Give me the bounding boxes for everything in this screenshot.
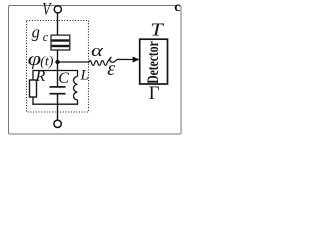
detector box	[140, 39, 168, 84]
dashed box (environment)	[27, 21, 89, 113]
wire L bottom	[77, 100, 79, 105]
wire node to output port	[58, 61, 90, 63]
wire to bottom terminal	[57, 104, 59, 121]
svg-text:Detector: Detector	[145, 41, 162, 84]
svg-text:ε: ε	[107, 58, 115, 80]
svg-text:c: c	[174, 0, 180, 15]
wire R bottom	[32, 97, 34, 105]
svg-text:T: T	[150, 21, 164, 40]
inductor L (coil)	[73, 77, 77, 100]
wire V to junction	[57, 13, 59, 36]
capacitor C	[50, 70, 66, 105]
bottom bus wire	[32, 103, 77, 105]
svg-text:g: g	[32, 23, 40, 42]
svg-text:Γ: Γ	[149, 84, 160, 104]
svg-text:c: c	[43, 30, 49, 44]
svg-text:α: α	[91, 41, 103, 60]
top bus wire R-C-L	[33, 71, 78, 81]
svg-text:C: C	[58, 70, 69, 87]
resistor R (box)	[30, 80, 37, 97]
svg-text:φ: φ	[28, 47, 42, 69]
wire junction to node	[57, 50, 59, 71]
svg-text:L: L	[80, 68, 89, 84]
arrowhead to detector	[133, 57, 140, 63]
panel frame (decorative)	[9, 6, 182, 135]
junction gc (box)	[51, 35, 70, 50]
bottom terminal (circle)	[54, 120, 61, 127]
photon wavy line with curl	[89, 57, 133, 65]
terminal V (top circle)	[54, 6, 61, 13]
node dot phi(t)	[55, 60, 59, 64]
